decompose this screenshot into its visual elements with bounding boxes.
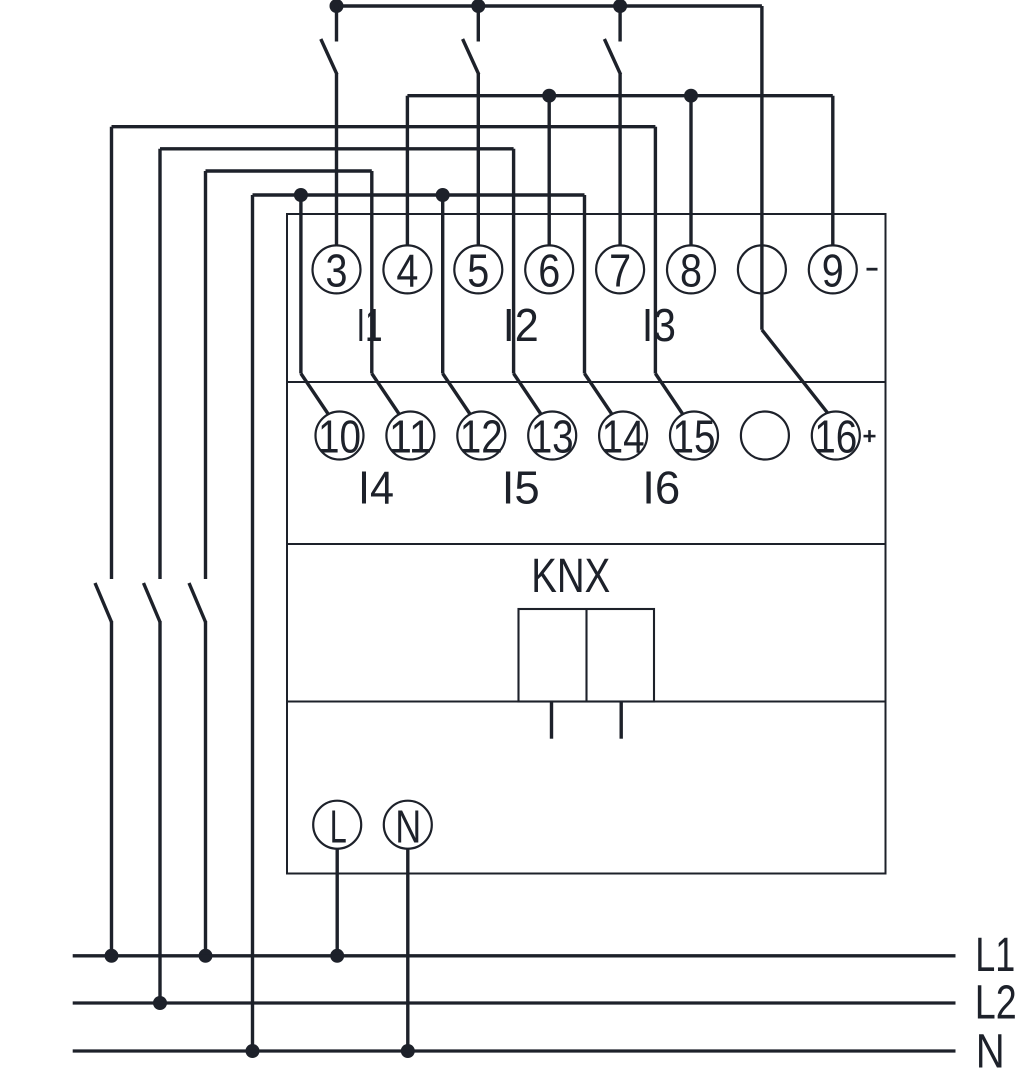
svg-text:16: 16 (814, 411, 857, 463)
node: minus bus / terminal 6 drop (542, 89, 556, 103)
terminal 7 (596, 245, 644, 293)
svg-text:N: N (395, 801, 421, 853)
svg-text:12: 12 (460, 411, 503, 463)
label: plus polarity at terminal 16 (864, 435, 876, 438)
terminal 4 (383, 245, 431, 293)
terminal 9 (809, 245, 857, 293)
switch S6: blade (189, 583, 206, 622)
svg-text:8: 8 (680, 245, 702, 297)
node: junction on rail L2 (153, 996, 167, 1010)
node: junction top bus / switch S2 (471, 0, 485, 13)
wire: minus bus drop to terminal 6 (548, 96, 551, 247)
wire: plus feed down through spare terminal (760, 6, 763, 330)
terminal L (313, 801, 361, 849)
terminal 15 (670, 412, 718, 460)
wire: drop to terminal 14 (583, 195, 586, 374)
wire: vertical from branch to switch S5 (158, 149, 161, 579)
node: minus bus / terminal 8 drop (684, 89, 698, 103)
svg-text:I2: I2 (503, 299, 539, 351)
wire: terminal N to N rail (406, 849, 409, 1051)
svg-text:L: L (330, 801, 347, 853)
terminal 10 (316, 412, 364, 460)
terminal N (384, 801, 432, 849)
switch S3: blade (604, 39, 620, 75)
KNX connector centre divider (585, 609, 587, 702)
svg-text:I5: I5 (502, 462, 540, 514)
wire: drop to terminal 13 (512, 149, 515, 374)
svg-text:7: 7 (609, 245, 631, 297)
svg-text:14: 14 (602, 411, 645, 463)
node: junction top bus / switch S3 (613, 0, 627, 13)
wire: mains rail L2 (73, 1001, 956, 1004)
node: neutral bus / terminal 12 drop (436, 188, 450, 202)
wire: vertical from branch to switch S6 (204, 171, 207, 579)
terminal 6 (525, 245, 573, 293)
node: junction on rail L1 (105, 949, 119, 963)
svg-text:5: 5 (467, 245, 489, 297)
terminal 14 (599, 412, 647, 460)
terminal 5 (454, 245, 502, 293)
wire: L1 branch horizontal to terminal 15 (112, 125, 656, 128)
wire: drop to terminal 11 (370, 171, 373, 374)
svg-text:N: N (976, 1025, 1005, 1079)
terminal 12 (457, 412, 505, 460)
section divider 1 (inputs I1-I3 / I4-I6) (287, 381, 886, 383)
terminal 11 (386, 412, 434, 460)
wire: L1 branch horizontal to terminal 11 (206, 169, 372, 172)
section divider 2 (inputs / KNX section) (287, 543, 886, 545)
switch S3 (to terminal 7): upper contact stub (618, 6, 621, 42)
node: junction L wire / L1 rail (330, 949, 344, 963)
wire: switch S6 to rail L1 (204, 621, 207, 956)
wire: drop to terminal 15 (654, 127, 657, 374)
node: junction N wire / N rail (401, 1044, 415, 1058)
wire: mains rail L1 (73, 954, 956, 957)
wire: neutral bus horizontal (253, 193, 585, 196)
terminal (spare, row 2) (741, 412, 789, 460)
terminal 13 (528, 412, 576, 460)
wire: mains rail N (73, 1049, 956, 1052)
device box outline (287, 214, 886, 874)
terminal 8 (667, 245, 715, 293)
wire: minus bus drop to terminal 9 (831, 96, 834, 247)
svg-text:10: 10 (318, 411, 361, 463)
svg-text:I6: I6 (642, 462, 680, 514)
terminal 3 (313, 245, 361, 293)
svg-text:I3: I3 (642, 299, 676, 351)
wire: L2 branch horizontal to terminal 13 (160, 147, 514, 150)
wire: switch S1 to terminal 3 (335, 74, 338, 246)
wire: top plus bus (337, 4, 762, 7)
wire: minus bus drop to terminal 8 (689, 96, 692, 247)
wire: switch S5 to rail L2 (158, 621, 161, 1003)
switch S5: blade (144, 583, 161, 622)
switch S2: blade (463, 39, 479, 75)
svg-text:L2: L2 (975, 976, 1017, 1030)
wire: terminal L to L1 rail (336, 849, 339, 956)
wire: switch S2 to terminal 5 (477, 74, 480, 246)
svg-text:9: 9 (822, 245, 844, 297)
wire: vertical from branch to switch S4 (110, 127, 113, 579)
node: junction on rail L1 (199, 949, 213, 963)
wire: drop to terminal 12 (441, 195, 444, 374)
wire: switch S3 to terminal 7 (618, 74, 621, 246)
switch S1: blade (321, 39, 337, 75)
KNX bus connector block (519, 609, 655, 702)
KNX connector pin 1 (550, 702, 553, 739)
wire: neutral vertical to N rail (251, 195, 254, 1051)
svg-text:15: 15 (673, 411, 716, 463)
wire: minus bus drop to terminal 4 (406, 96, 409, 247)
label: minus polarity at terminal 9 (867, 268, 878, 271)
terminal (spare, row 1) (738, 245, 786, 293)
node: junction top bus / switch S1 (330, 0, 344, 13)
svg-text:L1: L1 (975, 928, 1015, 982)
node: neutral bus / terminal 10 drop (294, 188, 308, 202)
svg-text:I1: I1 (357, 299, 383, 351)
section divider 3 (KNX / supply section) (287, 701, 886, 703)
wire: drop to terminal 10 (299, 195, 302, 374)
KNX connector pin 2 (620, 702, 623, 739)
svg-text:6: 6 (538, 245, 560, 297)
svg-text:13: 13 (531, 411, 574, 463)
svg-text:3: 3 (326, 245, 348, 297)
terminal 16 (812, 412, 860, 460)
switch S4: blade (95, 583, 112, 622)
svg-text:KNX: KNX (531, 550, 610, 603)
switch S2 (to terminal 5): upper contact stub (477, 6, 480, 42)
svg-text:4: 4 (396, 245, 418, 297)
wire: plus feed diagonal to terminal 16 (762, 330, 828, 413)
svg-text:11: 11 (389, 411, 432, 463)
svg-text:I4: I4 (358, 462, 394, 514)
switch S1 (to terminal 3): upper contact stub (335, 6, 338, 42)
wire: switch S4 to rail L1 (110, 621, 113, 956)
node: junction neutral vertical / N rail (246, 1044, 260, 1058)
wire: minus bus (407, 94, 832, 97)
